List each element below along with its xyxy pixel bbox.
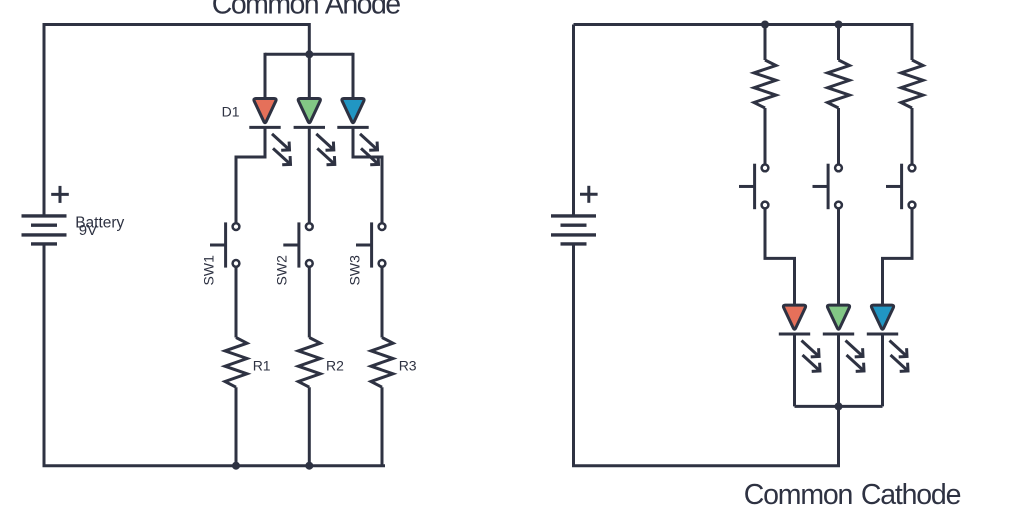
LED D6 blue: [871, 305, 893, 329]
svg-text:SW1: SW1: [200, 255, 216, 286]
switch SW5: [827, 164, 830, 210]
battery BT2 plus sign: [580, 193, 598, 196]
resistor R2: [298, 338, 320, 388]
wire SW3 to R3: [381, 266, 384, 337]
wire SW5 to D5: [837, 208, 840, 305]
resistor R4: [754, 60, 776, 108]
battery BT1 plus sign: [51, 193, 69, 196]
junction R1 bottom: [232, 462, 240, 470]
wire anode bus to D1: [264, 53, 267, 99]
resistor R1: [225, 338, 247, 388]
LED D2 green: [298, 99, 320, 123]
LED D4 red: [783, 305, 805, 329]
wire SW1 to R1: [235, 266, 238, 337]
wire D4 cathode down: [793, 334, 796, 406]
resistor R3: [371, 338, 393, 388]
wire D2 cathode to SW2: [308, 127, 311, 223]
LED D5 light arrows: [846, 341, 864, 357]
wire top bus to R4: [764, 23, 767, 60]
junction common anode node: [305, 50, 313, 58]
svg-text:SW3: SW3: [346, 255, 362, 286]
wire R5 to SW5: [837, 108, 840, 165]
svg-text:R3: R3: [399, 357, 417, 373]
wire top bus to R6: [911, 23, 914, 60]
wire D1 cathode to SW1: [236, 127, 265, 223]
battery BT2: [551, 214, 596, 217]
svg-text:9V: 9V: [79, 222, 97, 239]
svg-text:D1: D1: [222, 104, 240, 120]
wire battery positive to top bus: [572, 25, 575, 216]
junction top bus branch 2: [835, 21, 843, 29]
wire R2 to ground bus: [308, 387, 311, 466]
LED D5 green: [827, 305, 849, 329]
LED D2 light arrows: [316, 134, 334, 150]
junction common cathode node: [835, 402, 843, 410]
wire R3 to ground bus: [381, 387, 384, 466]
LED D3 blue: [342, 99, 364, 123]
svg-text:Common Cathode: Common Cathode: [744, 479, 961, 511]
svg-text:SW2: SW2: [274, 255, 290, 286]
svg-text:R1: R1: [253, 357, 271, 373]
LED D4 light arrows: [802, 341, 820, 357]
wire anode bus to D3: [352, 53, 355, 99]
wire top supply bus: [574, 23, 913, 26]
wire top bus to R5: [837, 23, 840, 60]
switch SW4: [753, 164, 756, 210]
battery BT1: [22, 214, 67, 217]
junction R2 bottom: [305, 462, 313, 470]
switch SW2: [297, 222, 300, 267]
LED D1 light arrows: [272, 134, 290, 150]
LED D6 light arrows: [890, 341, 908, 357]
wire anode bus to D2: [308, 53, 311, 99]
wire R4 to SW4: [764, 108, 767, 165]
svg-text:Common Anode: Common Anode: [212, 0, 400, 20]
wire D3 cathode to SW3: [353, 127, 382, 223]
wire SW4 to D4: [765, 208, 795, 305]
wire bottom return bus: [44, 244, 384, 466]
wire D5 cathode down: [837, 334, 840, 406]
wire SW2 to R2: [308, 266, 311, 337]
svg-text:R2: R2: [326, 357, 344, 373]
wire SW6 to D6: [883, 208, 913, 305]
wire D6 cathode down: [881, 334, 884, 406]
switch SW1: [224, 222, 227, 267]
wire R1 to ground bus: [235, 387, 238, 466]
switch SW3: [370, 222, 373, 267]
resistor R5: [828, 60, 850, 108]
wire common cathode bus: [795, 405, 883, 408]
resistor R6: [901, 60, 923, 108]
LED D1 red: [254, 99, 276, 123]
wire battery positive to anode node: [44, 25, 309, 216]
junction top bus branch 1: [761, 21, 769, 29]
switch SW6: [900, 164, 903, 210]
LED D3 light arrows: [360, 134, 378, 150]
wire R6 to SW6: [911, 108, 914, 165]
wire cathode node to battery negative: [574, 244, 839, 466]
wire common anode bus: [265, 53, 353, 56]
